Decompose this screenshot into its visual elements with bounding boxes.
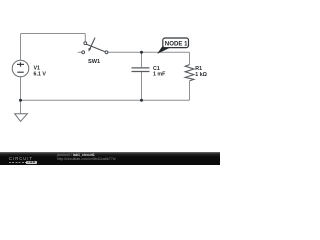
svg-text:1 kΩ: 1 kΩ	[195, 72, 207, 78]
svg-text:R1: R1	[195, 66, 202, 72]
svg-text:6.1 V: 6.1 V	[34, 71, 47, 77]
svg-text:NODE 1: NODE 1	[165, 40, 188, 47]
svg-text:SW1: SW1	[88, 59, 100, 65]
svg-text:1 mF: 1 mF	[153, 72, 166, 78]
